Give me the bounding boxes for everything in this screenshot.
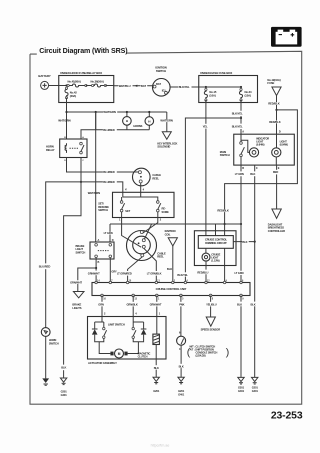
svg-text:BAT: BAT (156, 82, 161, 86)
svg-text:YEL/BLU: YEL/BLU (206, 303, 217, 307)
ground G201/G401 main switch (252, 377, 258, 381)
svg-text:SPEED SENSOR: SPEED SENSOR (201, 328, 221, 332)
svg-text:BLK: BLK (242, 240, 247, 244)
resume switch (157, 201, 160, 204)
svg-text:COIL: COIL (165, 232, 171, 236)
svg-text:(15A): (15A) (245, 94, 251, 98)
fuse No.15 (10A) (205, 87, 207, 88)
main switch internals (240, 142, 243, 145)
ground G201/G401 left (60, 378, 66, 382)
wire LT GRN brake switch pin D riser (109, 224, 111, 242)
wire junction whtgrn to horn bus (95, 112, 97, 130)
svg-text:(0.84W): (0.84W) (280, 143, 288, 147)
svg-text:RED: RED (273, 170, 278, 174)
svg-text:23-253: 23-253 (271, 411, 303, 422)
horn left (126, 125, 128, 130)
svg-text:BAT: BAT (141, 84, 147, 88)
svg-text:BLK/YEL: BLK/YEL (177, 273, 188, 277)
svg-text:No.36(50A): No.36(50A) (91, 79, 104, 83)
svg-text:No.24: No.24 (245, 90, 252, 94)
svg-text:RELAY: RELAY (46, 148, 55, 152)
svg-text:No.41(80A): No.41(80A) (68, 79, 81, 83)
svg-text:SWITCH: SWITCH (49, 342, 59, 346)
key interlock solenoid (162, 132, 171, 140)
wire GRY brake switch to cruise unit (109, 258, 111, 283)
wire WHT/GRN horizontal bus (67, 111, 167, 113)
brake light switch box (90, 242, 114, 259)
svg-text:BLK: BLK (237, 303, 242, 307)
wire BLK main switch C to ground (254, 165, 256, 171)
svg-text:IG1: IG1 (162, 88, 167, 92)
wire WHT/BLU to ignition switch BAT (114, 85, 153, 87)
ground G horn switch (42, 378, 49, 383)
svg-text:CRUISE CONTROL: CRUISE CONTROL (205, 237, 228, 241)
wire RED/BLK to main switch pin D (276, 110, 278, 134)
svg-text:LT GRN: LT GRN (104, 231, 113, 235)
wire YEL fuse15 down to dimming circuit (205, 100, 207, 124)
cruise unit bottom pins (101, 294, 104, 297)
svg-text:httpc//tm.ae: httpc//tm.ae (151, 444, 170, 448)
wire BLK clutch switch to ground (180, 345, 182, 364)
wire RED/BLK from No.19 fuse (276, 96, 278, 110)
svg-text:BLU/RED: BLU/RED (103, 170, 115, 174)
limit switch contacts right (132, 327, 134, 329)
limit switch contacts left (103, 327, 105, 329)
svg-text:WHT/BLU: WHT/BLU (119, 84, 131, 88)
wire LT GRN/RED reel to cruise unit (128, 257, 143, 271)
wire WHT/GRN down to key interlock (166, 112, 168, 132)
wire BLU/RED left branch down to horn switch (46, 182, 81, 264)
actuator assembly box (88, 317, 167, 360)
svg-text:GRY: GRY (111, 270, 117, 274)
wire battery to under-hood box (49, 85, 59, 87)
svg-text:WHT/GRN: WHT/GRN (88, 191, 100, 195)
svg-text:(0.84W): (0.84W) (256, 143, 264, 147)
svg-text:BLK: BLK (250, 172, 255, 176)
fuse No.42 (20A) (65, 84, 67, 86)
wire RED/BLK branch right and down to dimming circuit (225, 110, 298, 236)
actuator motor (110, 352, 113, 356)
wire WHT/GRN fuse42 down to horn relay (66, 98, 68, 139)
cable reel upper (133, 168, 151, 186)
svg-text:G401: G401 (238, 389, 245, 393)
wire BLU/RED horn relay pin C to cable reel (67, 158, 104, 173)
dashlight brightness controller (272, 209, 281, 218)
svg-text:GRN/BLK: GRN/BLK (127, 303, 138, 307)
wire LT GRN main switch B to cruise unit (240, 165, 242, 171)
cable reel lower (127, 231, 157, 261)
wire LT GRN/BLK reel to cruise unit (144, 248, 157, 271)
svg-text:(10A): (10A) (209, 94, 215, 98)
svg-text:G401: G401 (252, 389, 259, 393)
svg-text:LT GRN: LT GRN (235, 271, 244, 275)
svg-text:G201: G201 (61, 390, 68, 394)
wire BLK cruise unit to ground right (240, 296, 242, 302)
wire bus to reel upper terminal (144, 224, 151, 239)
svg-text:SUME: SUME (162, 210, 170, 214)
cruise light 1.12W (205, 248, 207, 253)
svg-text:BATTERY: BATTERY (38, 74, 50, 78)
svg-text:LIGHTS: LIGHTS (72, 306, 81, 310)
svg-text:SWITCH: SWITCH (220, 153, 230, 157)
wire red/blk through dimming box to cruise unit (224, 248, 226, 282)
wire LT GRN bus (110, 223, 241, 225)
actuator internal wiring (95, 317, 104, 330)
svg-text:WHT/GRN: WHT/GRN (58, 118, 70, 122)
fuse No.24 (15A) (240, 87, 242, 88)
svg-text:BLU/RED: BLU/RED (39, 265, 51, 269)
wire to left ground via jog (64, 182, 81, 365)
svg-text:BLU/RED: BLU/RED (103, 180, 115, 184)
svg-text:SWITCH: SWITCH (98, 208, 108, 212)
svg-text:No.15: No.15 (209, 90, 216, 94)
svg-text:G201: G201 (238, 385, 245, 389)
wire BLK/YEL fuse24 to main switch pin A (240, 100, 242, 111)
svg-text:GRN/WHT: GRN/WHT (88, 271, 100, 275)
svg-text:D: D (279, 129, 281, 133)
svg-text:SWITCH: SWITCH (156, 69, 166, 73)
wire GRN/BLK to actuator (132, 296, 134, 302)
battery page icon (271, 27, 302, 47)
svg-text:Circuit Diagram (With SRS): Circuit Diagram (With SRS) (39, 47, 128, 55)
cruise unit top pins (95, 281, 97, 283)
wire BLK/YEL branch to cruise unit (185, 118, 241, 272)
horn switch (41, 328, 50, 337)
svg-text:CONTROLLER: CONTROLLER (268, 229, 285, 233)
brake lights feed (73, 292, 84, 298)
svg-text:BLK/YEL: BLK/YEL (232, 111, 243, 115)
svg-text:GRN: GRN (98, 303, 104, 307)
svg-text:(2,D4,D3): (2,D4,D3) (196, 354, 206, 358)
svg-text:SWITCH: SWITCH (76, 250, 86, 254)
svg-text:BLK: BLK (154, 366, 159, 370)
bus inside under-dash box (199, 86, 241, 88)
wire BLU/RED horn relay to horns (81, 130, 103, 139)
svg-text:A: A (242, 129, 244, 133)
svg-text:FUSE: FUSE (267, 81, 274, 85)
ground G201/G401 LT GRN line (238, 377, 244, 381)
svg-text:CLUTCH: CLUTCH (138, 354, 148, 358)
wire GRN/WHT brake switch to brake lights (95, 258, 97, 268)
svg-text:G201: G201 (252, 385, 259, 389)
svg-text:REEL: REEL (152, 176, 159, 180)
wire GRN/WHT to magnetic clutch (156, 296, 158, 302)
svg-text:G201: G201 (153, 389, 160, 393)
svg-text:LT GRN/RED: LT GRN/RED (117, 271, 132, 275)
svg-text:ACTUATOR ASSEMBLY: ACTUATOR ASSEMBLY (88, 361, 117, 365)
svg-text:BLK: BLK (167, 267, 172, 271)
wire RED to dashlight brightness controller (276, 165, 278, 170)
wire horn switch to ground (45, 336, 47, 378)
horn right (148, 125, 150, 129)
svg-text:GRN/WHT: GRN/WHT (150, 303, 162, 307)
cruise control dimming box outer (194, 231, 236, 266)
svg-text:HORNS: HORNS (133, 124, 142, 128)
svg-text:UNDER-DASH FUSE BOX: UNDER-DASH FUSE BOX (200, 71, 232, 75)
set switch (120, 201, 123, 204)
svg-text:UNDER-HOOD FUSE/RELAY BOX: UNDER-HOOD FUSE/RELAY BOX (60, 71, 102, 75)
wire BLU/RED horn relay pin D branch (80, 158, 82, 182)
svg-text:GRN/WHT: GRN/WHT (70, 280, 82, 284)
svg-text:WHT/GRN: WHT/GRN (103, 110, 115, 114)
svg-text:RED/BLK: RED/BLK (268, 101, 280, 105)
wire BLK magnetic clutch to ground (155, 359, 157, 365)
svg-text:DIMMING CIRCUIT: DIMMING CIRCUIT (205, 241, 227, 245)
svg-text:RED/BLK: RED/BLK (217, 209, 229, 213)
wire set/resume to reel crossing diagonals (122, 221, 142, 247)
svg-text:G201: G201 (178, 389, 185, 393)
svg-text:BLK: BLK (179, 364, 184, 368)
svg-text:PNK: PNK (179, 303, 184, 307)
wire RED/BLU cruise light to cruise unit (205, 261, 207, 270)
ground G201 magnetic clutch (153, 377, 159, 381)
set/resume switch box (113, 192, 175, 217)
wire BLK/YEL ignition to under-dash box (170, 86, 199, 88)
svg-text:A: A (98, 238, 100, 242)
wire GRN to actuator (101, 296, 103, 302)
svg-text:G401: G401 (61, 393, 68, 397)
svg-text:(20A): (20A) (70, 94, 76, 98)
wire GRN/WHT brake switch to cruise unit (95, 268, 97, 271)
svg-text:SOLENOID: SOLENOID (157, 145, 170, 149)
light 0.84W (272, 148, 281, 157)
cruise control dimming circuit inner box (198, 236, 233, 249)
svg-text:REEL: REEL (157, 255, 164, 259)
magnetic clutch coil (153, 334, 160, 344)
diode left (92, 329, 98, 334)
svg-text:): ) (226, 346, 230, 358)
svg-text:C: C (256, 166, 258, 170)
svg-text:BLK: BLK (61, 366, 66, 370)
svg-text:G401: G401 (178, 393, 185, 397)
wire PNK to clutch switch (180, 296, 182, 302)
svg-text:YEL: YEL (203, 124, 208, 128)
wire YEL/BLU to speed sensor (210, 296, 212, 302)
svg-text:LT GRN: LT GRN (235, 172, 244, 176)
wire BLK dimming to main switch BLK line (233, 241, 254, 243)
svg-text:D: D (112, 238, 114, 242)
wires set/resume pins down (121, 212, 123, 221)
svg-text:BLK: BLK (251, 303, 256, 307)
svg-text:(1.12W): (1.12W) (211, 258, 219, 262)
svg-text:SET: SET (125, 209, 130, 213)
indicator light 0.84W (249, 148, 258, 157)
wires inside set/resume box (122, 192, 158, 200)
svg-text:BLU/RED: BLU/RED (103, 128, 115, 132)
svg-text:BLK/YEL: BLK/YEL (232, 124, 243, 128)
wire magnetic clutch internal (155, 317, 158, 360)
ground G201/G401 clutch switch (178, 377, 184, 381)
svg-text:B: B (98, 260, 100, 264)
svg-text:LT GRN/BLK: LT GRN/BLK (147, 271, 162, 275)
svg-text:LIMIT SWITCH: LIMIT SWITCH (108, 322, 125, 326)
wire BLK ignition coil to cruise unit (172, 246, 174, 283)
speed sensor (206, 317, 215, 326)
wire LT GRN drop into dimming circuit (215, 224, 217, 236)
svg-text:RED/BLU: RED/BLU (197, 270, 208, 274)
page frame (30, 51, 302, 404)
svg-text:M: M (118, 352, 121, 356)
diode right (141, 329, 147, 334)
svg-text:No.42: No.42 (70, 90, 77, 94)
svg-text:RED/BLK: RED/BLK (269, 120, 281, 124)
svg-text:WHT/GRN: WHT/GRN (160, 119, 172, 123)
cruise control unit box (92, 283, 250, 296)
svg-text:B: B (242, 166, 244, 170)
svg-text:CRUISE CONTROL UNIT: CRUISE CONTROL UNIT (156, 287, 187, 291)
wire WHT/GRN down to brake light switch pin A (95, 112, 97, 242)
wire cable reel to set/resume box (140, 183, 142, 192)
main switch box (234, 134, 295, 165)
svg-text:BLK/YEL: BLK/YEL (179, 85, 190, 89)
